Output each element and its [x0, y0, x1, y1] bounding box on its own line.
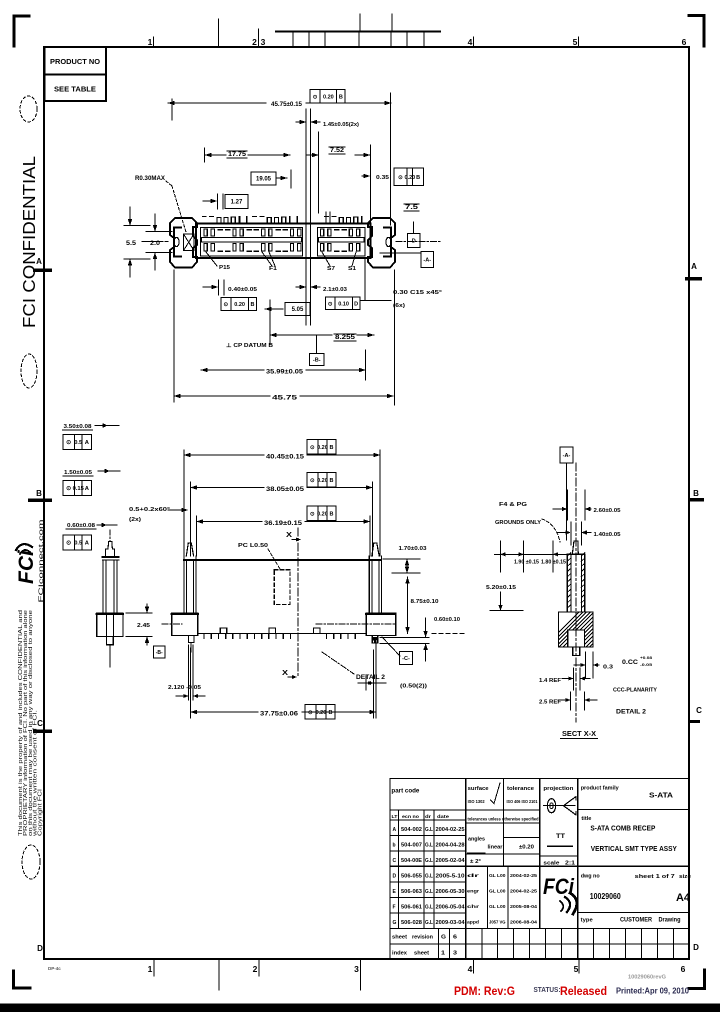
dim 1.27 box: [203, 194, 248, 209]
dim 1.4 REF: [539, 668, 590, 690]
cut marker X bottom: [282, 670, 297, 679]
title block: [390, 778, 692, 959]
fcf 0.20 B bottom: [305, 705, 335, 720]
svg-text:G: G: [393, 920, 397, 926]
svg-text:506-055: 506-055: [401, 873, 422, 879]
fcf 0.20 B front3: [307, 506, 336, 521]
svg-text:X: X: [282, 670, 288, 677]
svg-text:⊙: ⊙: [310, 445, 315, 451]
peg body: [97, 530, 123, 667]
bottom zone labels: [48, 959, 686, 990]
svg-text:revision: revision: [412, 935, 434, 941]
product family cell: [581, 786, 673, 800]
svg-text:36.19±0.15: 36.19±0.15: [264, 521, 303, 527]
svg-text:37.75±0.06: 37.75±0.06: [260, 712, 299, 718]
svg-text:appd: appd: [467, 919, 479, 925]
right zone letters: [685, 262, 704, 952]
svg-text:-0.05: -0.05: [640, 662, 653, 667]
svg-text:A4: A4: [676, 892, 691, 904]
dim 1.45 key: [296, 109, 359, 258]
svg-text:40.45±0.15: 40.45±0.15: [266, 455, 305, 461]
note 0.50 2x: [358, 650, 427, 718]
svg-text:S1: S1: [348, 266, 356, 272]
svg-text:0.10: 0.10: [338, 301, 349, 307]
dim 17.75: [205, 148, 291, 162]
dim 2.60 section: [553, 490, 621, 520]
FCI logo left margin: [15, 544, 38, 584]
fcf pos 0.20 B below: [221, 298, 257, 311]
svg-text:3: 3: [354, 964, 359, 974]
svg-text:linear: linear: [488, 845, 503, 851]
svg-text:tolerance: tolerance: [507, 786, 535, 792]
svg-text:B: B: [329, 710, 333, 716]
svg-text:X: X: [286, 532, 292, 539]
front right post: [369, 543, 381, 613]
dim 5.5 left: [124, 207, 150, 277]
svg-text:Printed:Apr 09, 2010: Printed:Apr 09, 2010: [616, 987, 690, 996]
connector body outline: [196, 224, 371, 259]
svg-text:2004-02-25: 2004-02-25: [510, 888, 538, 893]
svg-text:product family: product family: [581, 786, 620, 792]
legal disclaimer vertical text: [18, 610, 44, 836]
svg-text:G: G: [441, 935, 446, 941]
svg-text:G.L: G.L: [425, 889, 433, 895]
section tower: [567, 541, 585, 612]
svg-text:2004-02-25: 2004-02-25: [436, 827, 465, 833]
peg dim 3.50: [63, 423, 120, 430]
svg-text:2009-03-04: 2009-03-04: [436, 920, 465, 926]
fcf pos 0.10 D: [326, 297, 361, 310]
svg-text:0.20: 0.20: [323, 94, 334, 100]
svg-text:0.20: 0.20: [234, 302, 245, 308]
svg-text:0.20: 0.20: [405, 175, 416, 181]
svg-text:0.20: 0.20: [317, 478, 328, 484]
svg-text:0.5: 0.5: [74, 541, 83, 547]
svg-text:S-ATA: S-ATA: [649, 793, 673, 800]
svg-text:5.05: 5.05: [292, 307, 304, 313]
body pin tails: [203, 211, 362, 228]
dim 5.20 section: [486, 585, 523, 611]
datum -A- box right: [380, 252, 434, 268]
svg-text:1.27: 1.27: [231, 200, 243, 206]
svg-text:-A-: -A-: [563, 453, 571, 459]
svg-text:3: 3: [453, 951, 457, 957]
dim 19.05 box: [251, 170, 291, 188]
svg-text:2005-08-04: 2005-08-04: [510, 904, 538, 909]
svg-text:A: A: [393, 827, 397, 833]
svg-text:size: size: [679, 874, 692, 880]
svg-text:type: type: [581, 918, 594, 924]
front left post: [184, 543, 196, 613]
svg-text:GL L00: GL L00: [489, 873, 506, 878]
svg-text:C: C: [696, 706, 702, 715]
svg-text:SEE TABLE: SEE TABLE: [54, 85, 96, 94]
dim 0.3 section: [574, 652, 613, 678]
svg-text:2: 2: [253, 964, 258, 974]
svg-text:6: 6: [453, 935, 457, 941]
svg-text:G.L: G.L: [425, 827, 433, 833]
pin leaders and labels: [206, 252, 356, 272]
svg-text:1.80 ±0.15: 1.80 ±0.15: [541, 560, 566, 566]
svg-text:8.255: 8.255: [335, 335, 356, 341]
svg-text:-B-: -B-: [313, 358, 321, 364]
svg-text:B: B: [330, 511, 334, 517]
dim 7.52: [306, 132, 370, 213]
svg-text:0.20: 0.20: [316, 710, 327, 716]
svg-text:P15: P15: [219, 265, 230, 271]
dim 45.75 overall top: [168, 93, 391, 225]
dim 5.05 box: [265, 258, 311, 325]
FCI logo title block: [543, 874, 577, 914]
svg-text:506-061: 506-061: [401, 904, 422, 910]
svg-text:F4 & PG: F4 & PG: [499, 502, 527, 508]
dim 8.255: [270, 333, 374, 341]
svg-text:FCI CONFIDENTIAL: FCI CONFIDENTIAL: [19, 156, 39, 328]
svg-text:A: A: [691, 262, 697, 271]
svg-text:1.50±0.05: 1.50±0.05: [64, 470, 93, 476]
peg dim 1.50: [63, 469, 120, 476]
svg-text:2004-04-28: 2004-04-28: [436, 843, 465, 849]
body right cavity: [318, 228, 366, 257]
svg-text:2005-5-10: 2005-5-10: [436, 873, 465, 879]
section cut line X-X: [297, 528, 299, 678]
svg-text:B: B: [416, 175, 420, 181]
svg-text:sheet: sheet: [414, 951, 429, 957]
drawing frame border: [44, 46, 689, 48]
svg-text:1.45±0.05(2x): 1.45±0.05(2x): [323, 122, 359, 128]
svg-text:CCC-PLANARITY: CCC-PLANARITY: [613, 688, 657, 694]
svg-text:504-002: 504-002: [401, 827, 422, 833]
front left base block: [172, 613, 198, 652]
svg-text:B: B: [250, 302, 254, 308]
top view connector plan: [124, 90, 442, 406]
svg-text:F: F: [393, 904, 396, 910]
front rail: [184, 559, 381, 561]
svg-text:45.75±0.15: 45.75±0.15: [271, 102, 303, 108]
svg-text:0.60±0.08: 0.60±0.08: [67, 523, 96, 529]
svg-text:GL L00: GL L00: [489, 888, 506, 893]
svg-text:5.5: 5.5: [126, 241, 137, 247]
svg-text:chr: chr: [467, 904, 479, 910]
pad rows upper: [204, 229, 360, 236]
svg-text:FCi: FCi: [15, 549, 38, 584]
svg-text:title: title: [581, 816, 591, 822]
dim 2.1: [296, 285, 347, 293]
dim 8.75 right: [405, 577, 438, 634]
svg-text:35.99±0.05: 35.99±0.05: [266, 370, 304, 376]
svg-text:C: C: [393, 858, 397, 864]
svg-text:FCIconnect.com: FCIconnect.com: [39, 520, 45, 603]
projection TT and scale: [543, 833, 576, 867]
svg-text:tolerances unless otherwise sp: tolerances unless otherwise specified: [468, 817, 539, 822]
svg-text:S-ATA COMB RECEP: S-ATA COMB RECEP: [590, 826, 655, 833]
svg-text:dr: dr: [467, 873, 479, 879]
svg-text:⊙: ⊙: [224, 302, 229, 308]
corner mark top-right: [689, 16, 704, 47]
svg-text:⊙: ⊙: [328, 301, 333, 307]
svg-text:-C-: -C-: [402, 656, 410, 662]
svg-text:TT: TT: [556, 833, 565, 840]
svg-text:angles: angles: [468, 837, 485, 843]
dim 40.45: [184, 450, 380, 556]
svg-text:DETAIL 2: DETAIL 2: [616, 710, 647, 716]
svg-text:1: 1: [148, 37, 153, 47]
svg-text:PC L0.50: PC L0.50: [238, 543, 268, 549]
svg-text:G.L: G.L: [425, 873, 433, 879]
dim 36.19: [197, 516, 371, 556]
note CP DATUM B: [226, 300, 273, 349]
svg-text:4: 4: [468, 37, 473, 47]
front bottom profile: [198, 628, 366, 638]
svg-text:2.60±0.05: 2.60±0.05: [594, 508, 621, 514]
svg-text:DP-4c: DP-4c: [48, 966, 61, 971]
svg-text:7.5: 7.5: [405, 205, 419, 211]
label DETAIL 2: [322, 652, 386, 681]
svg-text:D: D: [37, 944, 43, 953]
svg-text:-B-: -B-: [156, 650, 163, 656]
pcb line stub: [432, 633, 465, 635]
svg-text:b: b: [393, 843, 396, 849]
dim 0.40 below: [203, 280, 257, 295]
svg-text:D: D: [393, 873, 397, 879]
svg-text:D: D: [693, 943, 699, 952]
dim 2.45 peg: [126, 604, 152, 645]
svg-text:GL L00: GL L00: [489, 904, 506, 909]
label PC L0.50: [238, 543, 280, 569]
dim 0.60 tail: [380, 617, 460, 661]
svg-text:engr: engr: [467, 888, 479, 894]
dim 2.0 left: [142, 214, 172, 270]
front view assembly: [126, 440, 460, 720]
dim 35.99: [201, 350, 366, 380]
section centerline: [575, 463, 577, 722]
svg-text:0.5+0.2x60°: 0.5+0.2x60°: [129, 507, 170, 513]
label R0.30MAX: [135, 176, 186, 232]
svg-text:1: 1: [441, 951, 445, 957]
svg-text:1.90 ±0.15: 1.90 ±0.15: [514, 560, 539, 566]
fcf 0.20 B front2: [307, 473, 336, 488]
svg-text:LT: LT: [392, 814, 398, 819]
svg-text:B: B: [330, 478, 334, 484]
svg-text:5: 5: [573, 37, 578, 47]
svg-text:⊙: ⊙: [308, 710, 313, 716]
svg-text:dwg no: dwg no: [581, 874, 600, 880]
svg-text:PDM: Rev:G: PDM: Rev:G: [454, 986, 515, 998]
svg-text:⊙: ⊙: [398, 175, 403, 181]
svg-text:⊙: ⊙: [66, 541, 71, 547]
svg-text:-D-: -D-: [410, 239, 418, 245]
dim 1.90 1.80 section: [495, 541, 569, 572]
svg-text:S7: S7: [327, 266, 335, 272]
svg-text:⊥ CP DATUM B: ⊥ CP DATUM B: [226, 342, 273, 349]
sheet revision row: [392, 928, 673, 959]
surface cell: [468, 783, 500, 804]
svg-text:sheet: sheet: [392, 935, 407, 941]
tolerances strip: [468, 817, 539, 866]
svg-text:2004-02-25: 2004-02-25: [510, 873, 538, 878]
note F4 PG grounds: [495, 502, 560, 542]
peg fcf 1: [63, 435, 92, 450]
dim 0.35 + fcf: [362, 145, 424, 235]
svg-text:1.4 REF: 1.4 REF: [539, 678, 562, 684]
scale bar top: [276, 14, 440, 46]
peg fcf 3: [63, 535, 92, 550]
dim 45.75 bottom: [174, 270, 395, 405]
datum -B- box: [310, 335, 325, 366]
svg-text:1: 1: [148, 964, 153, 974]
svg-text:0.20: 0.20: [317, 445, 328, 451]
body left cavity: [201, 228, 303, 257]
tolerance cell: [507, 786, 539, 804]
type cell: [581, 917, 681, 924]
svg-text:0.20: 0.20: [317, 511, 328, 517]
svg-text:10029060revG: 10029060revG: [628, 975, 666, 981]
svg-text:38.05±0.05: 38.05±0.05: [266, 487, 305, 493]
svg-text:⊙: ⊙: [66, 486, 71, 492]
peg dim 0.60: [66, 523, 117, 529]
svg-text:0.15: 0.15: [73, 486, 85, 492]
svg-text:0.30 C15 x45°: 0.30 C15 x45°: [393, 290, 442, 296]
left mounting ear: [170, 218, 197, 268]
datum -B- box peg: [154, 646, 166, 658]
svg-text:2:1: 2:1: [565, 861, 576, 867]
svg-text:0.3: 0.3: [603, 665, 613, 671]
svg-text:⊙: ⊙: [66, 440, 71, 446]
corner mark top-left: [14, 16, 29, 46]
svg-text:VERTICAL SMT TYPE ASSY: VERTICAL SMT TYPE ASSY: [591, 846, 677, 853]
title text: [581, 816, 677, 853]
section X-X view: [432, 447, 669, 739]
svg-text:STATUS:: STATUS:: [534, 987, 561, 994]
svg-text:19.05: 19.05: [256, 177, 272, 183]
svg-text:⊙: ⊙: [313, 94, 318, 100]
svg-text:2.120 -0.05: 2.120 -0.05: [168, 685, 201, 691]
centerline stubs: [142, 241, 440, 243]
svg-text:5.20±0.15: 5.20±0.15: [486, 585, 516, 591]
svg-text:Released: Released: [560, 986, 607, 998]
svg-text:part code: part code: [391, 789, 420, 795]
note chamfer 0.5x60: [129, 507, 188, 523]
top zone labels: [148, 19, 687, 47]
svg-text:PRODUCT NO: PRODUCT NO: [50, 57, 100, 66]
svg-text:1.70±0.03: 1.70±0.03: [399, 546, 427, 552]
label SECT X-X: [561, 731, 598, 739]
svg-text:sheet 1 of 7: sheet 1 of 7: [635, 874, 675, 880]
svg-text:3: 3: [261, 37, 266, 47]
svg-text:2006-08-04: 2006-08-04: [510, 919, 538, 924]
svg-text:B: B: [330, 445, 334, 451]
svg-text:D: D: [354, 301, 358, 307]
svg-text:0.CC: 0.CC: [622, 660, 639, 666]
svg-text:(0.50(2)): (0.50(2)): [400, 684, 427, 690]
svg-text:(2x): (2x): [129, 517, 141, 523]
svg-text:scale: scale: [543, 861, 560, 867]
title block outer and lines: [390, 778, 689, 959]
svg-text:projection: projection: [543, 786, 573, 792]
svg-text:J057 VG: J057 VG: [489, 919, 506, 924]
svg-text:GROUNDS ONLY: GROUNDS ONLY: [495, 520, 541, 526]
pad rows lower: [204, 244, 360, 252]
body contact band: [202, 238, 365, 243]
svg-text:10029060: 10029060: [590, 892, 621, 901]
dim 37.75: [191, 640, 377, 718]
svg-text:0.40±0.05: 0.40±0.05: [228, 287, 257, 293]
svg-text:date: date: [437, 814, 450, 819]
corner mark bottom-right: [689, 970, 705, 989]
note CCC tolerance: [622, 655, 653, 667]
svg-text:ISO 406 ISO 2101: ISO 406 ISO 2101: [507, 799, 539, 804]
svg-text:-A-: -A-: [423, 258, 431, 264]
scan black bottom bar: [0, 1004, 720, 1012]
svg-text:0.5: 0.5: [74, 440, 83, 446]
right mounting ear: [368, 218, 395, 268]
svg-text:Copyright FCI: Copyright FCI: [38, 789, 44, 836]
svg-text:CUSTOMER: CUSTOMER: [620, 917, 652, 924]
front right base block: [366, 613, 396, 644]
svg-text:2.1±0.03: 2.1±0.03: [323, 287, 347, 293]
svg-text:+0.08: +0.08: [640, 655, 653, 660]
svg-text:8.75±0.10: 8.75±0.10: [411, 599, 439, 605]
fcf 0.20 B front1: [307, 440, 336, 455]
svg-text:± 2°: ± 2°: [470, 859, 481, 865]
svg-text:17.75: 17.75: [228, 152, 247, 158]
svg-text:index: index: [392, 951, 408, 957]
svg-text:R0.30MAX: R0.30MAX: [135, 176, 165, 182]
svg-text:2006-05-04: 2006-05-04: [436, 904, 465, 910]
svg-text:SECT X-X: SECT X-X: [562, 731, 596, 738]
svg-text:0.60±0.10: 0.60±0.10: [434, 617, 460, 623]
datum -C- box: [382, 637, 413, 665]
dim 2.5 REF: [539, 692, 597, 710]
dim 1.40 section: [557, 522, 621, 545]
datum -D- box: [408, 222, 421, 248]
svg-text:surface: surface: [468, 786, 490, 792]
fcf dia 0.20 B top: [310, 90, 345, 104]
datum -A- box section: [560, 447, 573, 540]
centerline horizontal front: [162, 623, 396, 625]
svg-text:G.L: G.L: [425, 858, 433, 864]
svg-text:3.50±0.08: 3.50±0.08: [64, 424, 93, 430]
svg-text:ecn no: ecn no: [402, 814, 419, 819]
svg-text:506-063: 506-063: [401, 889, 422, 895]
svg-text:Drawing: Drawing: [659, 917, 681, 924]
svg-text:45.75: 45.75: [272, 396, 298, 402]
svg-text:G.L: G.L: [425, 920, 433, 926]
stamp ellipse bottom: [22, 845, 40, 879]
svg-text:1.40±0.05: 1.40±0.05: [594, 532, 621, 538]
section base block hatched: [542, 609, 669, 656]
svg-text:F1: F1: [269, 266, 277, 272]
corner mark bottom-left: [14, 971, 31, 988]
stamp ellipse top: [20, 96, 37, 122]
svg-text:504-00E: 504-00E: [401, 858, 423, 864]
svg-text:2.45: 2.45: [137, 623, 151, 629]
svg-text:dr: dr: [425, 814, 431, 819]
svg-text:B: B: [36, 489, 42, 498]
solder peg detail: [63, 423, 124, 667]
note 0.30 chamfer: [360, 259, 442, 309]
svg-text:504-007: 504-007: [401, 843, 422, 849]
pdm status line: [454, 975, 690, 999]
svg-text:0.35: 0.35: [376, 175, 389, 181]
dashed detail box: [274, 570, 290, 605]
revision table rows: [390, 814, 466, 926]
dwg no cell: [581, 874, 692, 905]
svg-text:⊙: ⊙: [310, 478, 315, 484]
product no table: [45, 47, 107, 101]
svg-text:G.L: G.L: [425, 904, 433, 910]
svg-text:G.L: G.L: [425, 843, 433, 849]
